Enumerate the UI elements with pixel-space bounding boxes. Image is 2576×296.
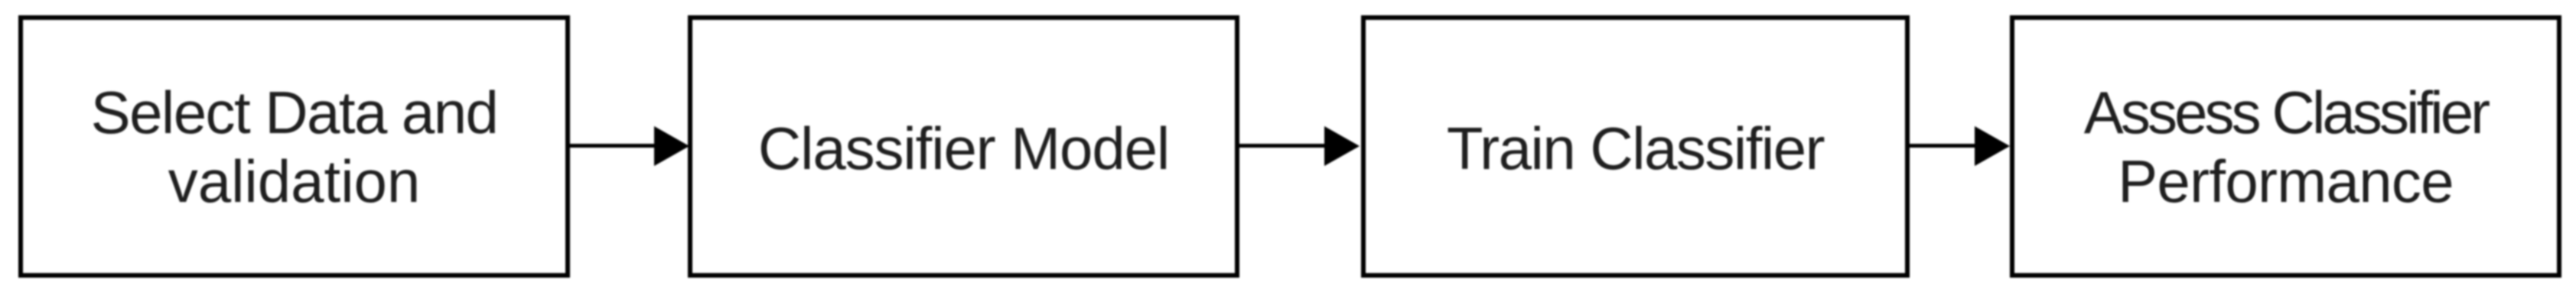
arrow 2 wire: [1239, 144, 1327, 148]
arrow 3 wire: [1910, 144, 1978, 148]
box 4: Assess Classifier Performance: [2010, 15, 2561, 278]
label box 1: [18, 79, 570, 216]
box 2: Classifier Model: [688, 15, 1239, 278]
label box 2: [688, 115, 1239, 184]
box 3: Train Classifier: [1361, 15, 1910, 278]
arrow 1 wire: [570, 144, 658, 148]
arrow 1 head: [654, 126, 689, 166]
arrow 3 head: [1975, 126, 2010, 166]
arrow 2 head: [1324, 126, 1360, 166]
box 1: Select Data and validation: [18, 15, 570, 278]
label box 3: [1361, 115, 1910, 184]
label box 4: [2010, 79, 2561, 216]
